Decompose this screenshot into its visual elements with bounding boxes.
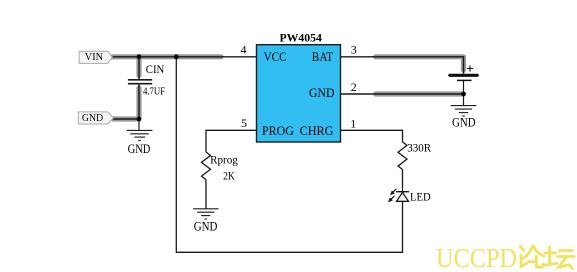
CJK tan2: cloud dot: [569, 265, 573, 269]
ground symbol left: [127, 130, 153, 140]
CJK tan2: soil vertical: [548, 247, 551, 265]
svg-text:VCC: VCC: [264, 50, 287, 64]
CJK tan2: cloud triangle stroke: [559, 257, 568, 267]
svg-text:3: 3: [351, 42, 357, 56]
port VIN: [79, 51, 112, 63]
svg-text:2: 2: [351, 80, 357, 94]
svg-text:1: 1: [350, 117, 356, 131]
wire BAT thick bus: [376, 57, 464, 70]
wire battery to junction: [463, 80, 465, 94]
ground symbol Rprog: [193, 209, 218, 219]
svg-text:5: 5: [241, 116, 247, 130]
wire CIN bottom stub thick: [136, 88, 141, 118]
resistor Rprog: [202, 152, 211, 180]
wire GND pin2 thick bus: [376, 91, 462, 96]
wire GND tag thick: [114, 116, 138, 121]
battery BT1 bottom plate: [457, 79, 472, 81]
CJK tan2: cloud top horizontal: [559, 249, 572, 252]
wire CIN column core: [138, 57, 140, 79]
CJK lun3: bottom vertical hook: [536, 256, 543, 267]
wire 330R to LED: [402, 170, 404, 193]
svg-text:4: 4: [241, 42, 247, 56]
svg-text:GND: GND: [194, 220, 218, 234]
svg-text:BAT: BAT: [312, 50, 334, 64]
wire loop left + bottom: [176, 57, 402, 253]
svg-text:CHRG: CHRG: [300, 124, 334, 138]
svg-text:4.7UF: 4.7UF: [143, 86, 165, 98]
wire CIN top stub thick: [136, 59, 141, 76]
ground symbol battery: [451, 106, 477, 117]
CJK tan2: cloud second horizontal: [557, 255, 574, 258]
junction node GND/CIN: [137, 117, 142, 122]
wire GND tag core: [112, 118, 139, 120]
CJK lun3: person right stroke: [534, 247, 544, 257]
capacitor CIN: [128, 80, 152, 84]
svg-text:GND: GND: [452, 115, 476, 129]
battery BT1 top plate: [450, 74, 477, 77]
port GND: [78, 112, 113, 124]
wire pin2 to junction core: [341, 93, 464, 95]
LED D1 arrows: [389, 189, 396, 202]
svg-text:PROG: PROG: [262, 124, 294, 138]
LED D1 triangle: [397, 192, 409, 201]
battery BT1 plus sign: [467, 65, 473, 71]
resistor R 330R: [398, 142, 407, 170]
CJK lun3: person left stroke: [524, 246, 533, 258]
wire pin5 to Rprog: [206, 130, 257, 152]
wire VIN core to pin4: [112, 56, 256, 58]
svg-text:Rprog: Rprog: [210, 153, 238, 167]
wire ground stub battery: [463, 94, 465, 106]
svg-text:CIN: CIN: [146, 62, 165, 76]
watermark UCCPD forum: [436, 242, 574, 272]
svg-text:GND: GND: [309, 86, 335, 100]
CJK lun3: speech radical dot: [520, 246, 523, 250]
svg-text:2K: 2K: [223, 168, 235, 182]
svg-text:330R: 330R: [407, 141, 431, 155]
junction node VIN/loop: [174, 54, 179, 59]
svg-text:UCCPD: UCCPD: [436, 242, 517, 272]
svg-text:GND: GND: [82, 113, 104, 124]
junction node VIN/CIN: [137, 54, 142, 59]
svg-text:GND: GND: [128, 142, 151, 156]
wire pin3 to battery core: [341, 57, 464, 74]
IC U1 PW4054 body: [257, 45, 341, 142]
CJK tan2: soil bottom stroke: [545, 263, 557, 265]
CJK tan2: soil top horizontal: [545, 252, 556, 255]
svg-text:PW4054: PW4054: [280, 33, 323, 45]
svg-text:VIN: VIN: [85, 52, 104, 63]
wire VIN thick bus: [112, 54, 221, 59]
svg-text:LED: LED: [410, 189, 431, 203]
LED D1 cathode bar: [396, 191, 409, 193]
CJK lun3: speech radical hook: [521, 255, 527, 267]
wire Rprog to ground: [205, 180, 207, 209]
wire pin1 to 330R: [341, 130, 403, 142]
junction node BAT-/GND: [461, 92, 466, 97]
CJK lun3: bottom horizontal: [529, 260, 536, 263]
wire ground stub left: [138, 119, 140, 130]
